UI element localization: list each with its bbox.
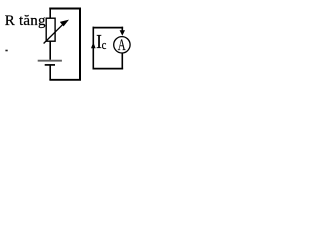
svg-text:c: c [102, 38, 107, 52]
svg-text:R tăng: R tăng [5, 13, 46, 29]
svg-text:A: A [118, 37, 126, 54]
